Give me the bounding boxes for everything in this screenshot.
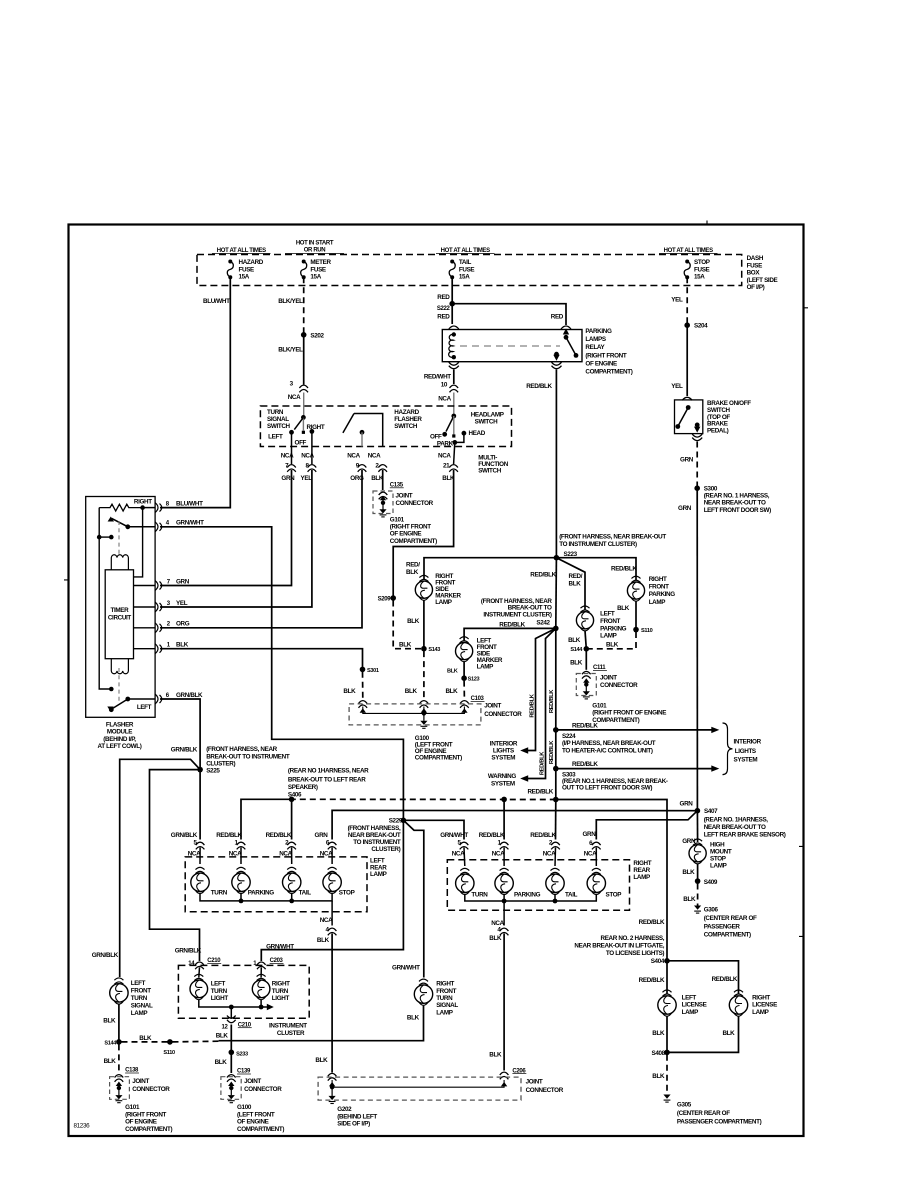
wire BLK S144 to C138 (dashed) bbox=[118, 1044, 120, 1073]
wire RED/BLK S242 to left front side marker lamp bbox=[464, 628, 556, 640]
svg-text:BLK: BLK bbox=[683, 896, 696, 903]
svg-text:GRN: GRN bbox=[315, 832, 329, 839]
svg-text:RIGHT: RIGHT bbox=[272, 980, 290, 987]
svg-text:BLK: BLK bbox=[489, 1052, 502, 1059]
svg-text:SYSTEM: SYSTEM bbox=[491, 781, 515, 788]
svg-text:REAR NO. 2 HARNESS,: REAR NO. 2 HARNESS, bbox=[601, 935, 665, 942]
wire RED/BLK S242 to interior lights system arrow bbox=[523, 628, 556, 750]
wire GRN/WHT flasher pin 4 to S229 bbox=[160, 527, 403, 821]
wire BLK right front turn to S110 bbox=[219, 1006, 424, 1041]
hazard flasher switch bbox=[354, 414, 383, 447]
brake switch arm bbox=[686, 405, 691, 410]
svg-text:NCA: NCA bbox=[584, 850, 597, 857]
fuse STOP FUSE 15A bbox=[685, 260, 689, 264]
svg-text:S144: S144 bbox=[570, 647, 583, 653]
wire BLK S209 to S143 (dashed) bbox=[393, 601, 421, 649]
svg-text:YEL: YEL bbox=[671, 297, 683, 304]
svg-text:LAMP: LAMP bbox=[436, 1009, 453, 1016]
relay switch input cap bbox=[561, 326, 571, 329]
splice S303 with arrow to interior lights bbox=[553, 766, 559, 772]
svg-text:S242: S242 bbox=[536, 620, 550, 627]
svg-text:15A: 15A bbox=[310, 274, 321, 281]
svg-text:(BEHIND LEFT: (BEHIND LEFT bbox=[337, 1113, 377, 1120]
svg-text:21: 21 bbox=[443, 463, 450, 470]
svg-text:SWITCH: SWITCH bbox=[478, 468, 502, 475]
splice S144 (bottom) bbox=[116, 1039, 122, 1045]
headlamp switch contacts bbox=[451, 414, 456, 419]
svg-text:S408: S408 bbox=[651, 1050, 665, 1057]
svg-text:NCA: NCA bbox=[438, 396, 451, 403]
svg-text:CONNECTOR: CONNECTOR bbox=[484, 711, 522, 718]
wire BLK pin21 to S209 bbox=[393, 470, 453, 598]
svg-text:INSTRUMENT CLUSTER): INSTRUMENT CLUSTER) bbox=[483, 611, 551, 618]
svg-text:RED/BLK: RED/BLK bbox=[712, 976, 738, 983]
svg-text:TURN: TURN bbox=[211, 988, 228, 995]
wire RED tail fuse to S222 bbox=[451, 277, 453, 303]
svg-text:BLK: BLK bbox=[407, 1015, 420, 1022]
wire GRN pin7 to flasher pin 7 bbox=[160, 470, 292, 586]
svg-text:JOINT: JOINT bbox=[396, 493, 413, 500]
joint connector C206 bbox=[328, 1073, 337, 1080]
svg-text:LICENSE: LICENSE bbox=[752, 1002, 777, 1009]
svg-text:CLUSTER): CLUSTER) bbox=[371, 846, 400, 853]
svg-text:TURN: TURN bbox=[471, 892, 488, 899]
wire BLK S144 to C111 bbox=[585, 649, 587, 670]
svg-text:15A: 15A bbox=[694, 274, 705, 281]
svg-text:S301: S301 bbox=[367, 668, 379, 674]
wire BLK/YEL meter fuse to S202 (dashed) bbox=[303, 277, 305, 335]
lamp left front parking bbox=[576, 612, 593, 629]
svg-text:INTERIOR: INTERIOR bbox=[490, 741, 518, 748]
svg-text:COMPARTMENT): COMPARTMENT) bbox=[237, 1126, 284, 1133]
wire GRN/BLK S225 branch to instrument cluster pin 14 bbox=[150, 770, 201, 961]
svg-text:OR RUN: OR RUN bbox=[304, 247, 326, 253]
svg-text:FLASHER: FLASHER bbox=[394, 416, 422, 423]
svg-text:NCA: NCA bbox=[320, 850, 333, 857]
svg-text:LEFT REAR BRAKE SENSOR): LEFT REAR BRAKE SENSOR) bbox=[704, 831, 786, 838]
wire pin3 to turn signal switch pivot bbox=[303, 393, 305, 418]
svg-text:FRONT: FRONT bbox=[600, 618, 620, 625]
svg-text:(BEHIND I/P,: (BEHIND I/P, bbox=[103, 736, 136, 743]
wire BLK left rear pin 4 to C206 bbox=[331, 901, 333, 926]
svg-text:LAMP: LAMP bbox=[633, 874, 650, 881]
svg-text:TURN: TURN bbox=[436, 995, 453, 1002]
svg-text:PEDAL): PEDAL) bbox=[707, 428, 729, 435]
svg-text:GRN: GRN bbox=[176, 578, 190, 585]
svg-text:RED/BLK: RED/BLK bbox=[529, 693, 535, 717]
svg-text:RELAY: RELAY bbox=[585, 344, 605, 351]
svg-text:BLK: BLK bbox=[103, 1018, 116, 1025]
svg-text:LEFT: LEFT bbox=[682, 994, 697, 1001]
svg-text:NCA: NCA bbox=[347, 453, 360, 460]
svg-text:RED/BLK: RED/BLK bbox=[527, 789, 553, 796]
flasher mechanical link dashes bbox=[118, 521, 120, 554]
cluster exit pin 12 C210 bbox=[230, 1007, 232, 1018]
svg-text:RED/BLK: RED/BLK bbox=[639, 977, 665, 984]
svg-text:RIGHT: RIGHT bbox=[134, 498, 152, 505]
relay coil input cap bbox=[449, 326, 459, 329]
svg-text:(LEFT SIDE: (LEFT SIDE bbox=[747, 277, 778, 284]
wire BLK S409 to G306 (dashed) bbox=[697, 884, 699, 906]
wire YEL stop fuse to S204 (dashed) bbox=[686, 277, 688, 325]
svg-text:FUSE: FUSE bbox=[239, 266, 255, 273]
svg-text:NCA: NCA bbox=[301, 453, 314, 460]
wire YEL pin8 to flasher pin 3 bbox=[160, 470, 312, 607]
svg-text:RED/BLK: RED/BLK bbox=[572, 722, 598, 729]
svg-text:15A: 15A bbox=[459, 274, 470, 281]
svg-text:GRN/BLK: GRN/BLK bbox=[171, 747, 198, 754]
svg-text:INTERIOR: INTERIOR bbox=[734, 739, 762, 746]
cluster bulb ground bus with arrow bbox=[199, 1000, 269, 1007]
svg-text:S209: S209 bbox=[378, 596, 392, 602]
svg-text:GRN/WHT: GRN/WHT bbox=[392, 965, 420, 972]
svg-text:RED/: RED/ bbox=[569, 573, 583, 580]
svg-text:(LEFT FRONT: (LEFT FRONT bbox=[237, 1111, 275, 1118]
svg-text:14: 14 bbox=[188, 961, 195, 967]
svg-text:(RIGHT FRONT: (RIGHT FRONT bbox=[585, 352, 626, 359]
fuse TAIL FUSE 15A bbox=[450, 260, 454, 264]
svg-text:HEAD: HEAD bbox=[469, 430, 486, 437]
svg-text:OUT TO LEFT FRONT DOOR SW): OUT TO LEFT FRONT DOOR SW) bbox=[562, 784, 652, 791]
svg-text:HIGH: HIGH bbox=[710, 842, 725, 849]
wire RED/BLK S223 to S242 bbox=[555, 558, 558, 629]
svg-text:BLK: BLK bbox=[682, 869, 695, 876]
svg-text:S224: S224 bbox=[562, 733, 576, 740]
wire BLK marker to S143 bbox=[423, 600, 425, 649]
flasher coil bottom bbox=[111, 659, 128, 674]
wire RED/BLK S223 to left front parking lamp bbox=[556, 558, 585, 610]
timer circuit pin stubs bbox=[134, 585, 156, 587]
svg-text:TO INSTRUMENT CLUSTER): TO INSTRUMENT CLUSTER) bbox=[559, 541, 637, 548]
lamp right front side marker bbox=[415, 581, 432, 598]
svg-text:S110: S110 bbox=[163, 1050, 175, 1056]
svg-text:TURN: TURN bbox=[131, 995, 148, 1002]
lamp left front turn signal bbox=[110, 984, 128, 1002]
wire RED/BLK junction to S406 (dashed) bbox=[294, 798, 556, 800]
svg-text:GRN: GRN bbox=[583, 831, 597, 838]
wire YEL S204 to brake switch bbox=[686, 325, 688, 396]
svg-text:G101: G101 bbox=[125, 1104, 140, 1111]
wire BLK left front turn to S144 bbox=[118, 1005, 120, 1042]
svg-text:(REAR NO. 1HARNESS,: (REAR NO. 1HARNESS, bbox=[704, 817, 769, 824]
svg-text:JOINT: JOINT bbox=[600, 675, 617, 682]
svg-text:GRN/WHT: GRN/WHT bbox=[440, 832, 468, 839]
svg-text:JOINT: JOINT bbox=[526, 1079, 543, 1086]
svg-text:BOX: BOX bbox=[747, 270, 761, 277]
svg-text:S222: S222 bbox=[437, 306, 451, 312]
svg-text:YEL: YEL bbox=[671, 383, 683, 390]
svg-text:TAIL: TAIL bbox=[459, 259, 472, 266]
svg-text:HAZARD: HAZARD bbox=[239, 259, 264, 266]
svg-text:AT LEFT COWL): AT LEFT COWL) bbox=[98, 743, 142, 750]
wire BLU/WHT hazard fuse to flasher pin 8 bbox=[160, 277, 230, 507]
multi-function switch box bbox=[260, 406, 511, 447]
svg-text:S404: S404 bbox=[651, 958, 665, 965]
splice S209 bbox=[390, 595, 396, 601]
wire RED/BLK S404 to right license lamp bbox=[667, 961, 739, 994]
lamp right front turn signal bbox=[414, 985, 432, 1003]
svg-text:CIRCUIT: CIRCUIT bbox=[108, 614, 132, 621]
svg-text:BLK: BLK bbox=[405, 688, 418, 695]
svg-text:MOUNT: MOUNT bbox=[710, 849, 732, 856]
svg-text:CONNECTOR: CONNECTOR bbox=[244, 1086, 282, 1093]
splice S123 bbox=[461, 675, 467, 681]
svg-text:S225: S225 bbox=[206, 767, 220, 774]
svg-text:S123: S123 bbox=[468, 677, 480, 683]
lamp high mount stop bbox=[689, 845, 706, 862]
svg-text:SYSTEM: SYSTEM bbox=[491, 755, 515, 762]
svg-text:OF ENGINE: OF ENGINE bbox=[390, 531, 422, 538]
wire GRN S300 to S407 bbox=[696, 488, 698, 811]
svg-text:SIGNAL: SIGNAL bbox=[131, 1003, 153, 1010]
svg-text:LIGHTS: LIGHTS bbox=[735, 748, 756, 755]
svg-text:BLK/YEL: BLK/YEL bbox=[278, 298, 303, 305]
svg-text:S202: S202 bbox=[310, 332, 324, 339]
svg-text:RED: RED bbox=[437, 294, 450, 301]
svg-text:BLK: BLK bbox=[570, 660, 583, 667]
dash fuse box outline bbox=[197, 255, 742, 286]
svg-text:FRONT: FRONT bbox=[131, 988, 151, 995]
svg-text:LEFT: LEFT bbox=[137, 704, 152, 711]
svg-text:BLK: BLK bbox=[406, 569, 419, 576]
wire BLK S408 to G305 (dashed) bbox=[666, 1055, 668, 1095]
wire GRN S407 to left rear stop pin 6 bbox=[332, 810, 697, 839]
svg-text:G101: G101 bbox=[592, 702, 607, 709]
svg-text:RED: RED bbox=[551, 314, 564, 321]
svg-text:YEL: YEL bbox=[301, 475, 313, 482]
svg-text:BREAK-OUT TO INSTRUMENT: BREAK-OUT TO INSTRUMENT bbox=[206, 753, 290, 760]
splice S229 bbox=[401, 818, 407, 824]
svg-text:NEAR BREAK-OUT TO: NEAR BREAK-OUT TO bbox=[704, 824, 766, 831]
svg-text:BLK: BLK bbox=[489, 935, 502, 942]
junction dot rear RED/BLK bbox=[553, 797, 559, 803]
svg-text:BLK: BLK bbox=[104, 1058, 117, 1065]
wire RED S222 to relay coil bbox=[451, 304, 453, 324]
svg-text:OFF: OFF bbox=[430, 433, 442, 440]
svg-text:S406: S406 bbox=[288, 792, 302, 799]
bulb left rear turn bbox=[191, 873, 209, 891]
wire RED/BLK relay to S223 bbox=[555, 370, 557, 558]
flasher resistor bbox=[99, 504, 142, 511]
right rear lamp box bbox=[447, 860, 629, 910]
svg-text:S144: S144 bbox=[104, 1040, 117, 1046]
svg-text:ORG: ORG bbox=[176, 621, 190, 628]
relay coil output chevron bbox=[449, 362, 459, 365]
svg-text:LAMP: LAMP bbox=[752, 1009, 769, 1016]
wire BLK/YEL S202 to multifunction pin 3 bbox=[303, 335, 305, 385]
svg-text:LAMP: LAMP bbox=[131, 1010, 148, 1017]
relay mechanical link (dashed) bbox=[460, 345, 560, 347]
svg-text:RED/BLK: RED/BLK bbox=[479, 832, 505, 839]
turn signal switch contacts bbox=[301, 415, 306, 420]
ground G100 (C103) bbox=[420, 721, 427, 725]
svg-text:HEADLAMP: HEADLAMP bbox=[471, 411, 504, 418]
flasher left rail bbox=[99, 508, 111, 689]
svg-text:TIMER: TIMER bbox=[110, 607, 129, 614]
wire RED/BLK S223 to right front side marker lamp bbox=[424, 558, 556, 579]
splice S110 (front) bbox=[633, 627, 639, 633]
svg-text:15A: 15A bbox=[239, 274, 250, 281]
svg-text:YEL: YEL bbox=[176, 600, 188, 607]
relay parking lamps box bbox=[442, 330, 582, 362]
svg-text:NCA: NCA bbox=[279, 850, 292, 857]
svg-text:FUSE: FUSE bbox=[310, 266, 326, 273]
bulb left rear tail bbox=[283, 873, 301, 891]
svg-text:GRN: GRN bbox=[678, 505, 692, 512]
svg-text:SYSTEM: SYSTEM bbox=[734, 757, 758, 764]
svg-text:(REAR NO 1HARNESS, NEAR: (REAR NO 1HARNESS, NEAR bbox=[288, 768, 369, 775]
svg-text:GRN/WHT: GRN/WHT bbox=[176, 520, 204, 527]
svg-text:TURN: TURN bbox=[267, 409, 284, 416]
svg-text:TURN: TURN bbox=[272, 988, 289, 995]
svg-text:RED/: RED/ bbox=[406, 562, 420, 569]
wire BLK license lamps to S408 bbox=[666, 1017, 668, 1053]
svg-text:LAMP: LAMP bbox=[600, 633, 617, 640]
svg-text:BLU/WHT: BLU/WHT bbox=[203, 298, 230, 305]
svg-text:LAMP: LAMP bbox=[682, 1009, 699, 1016]
svg-text:CONNECTOR: CONNECTOR bbox=[600, 682, 638, 689]
fuse METER FUSE 15A bbox=[302, 260, 306, 264]
svg-text:PASSENGER COMPARTMENT): PASSENGER COMPARTMENT) bbox=[677, 1119, 762, 1126]
relay switch output contact bbox=[554, 352, 559, 357]
svg-text:GRN/BLK: GRN/BLK bbox=[175, 948, 202, 955]
bulb right rear tail bbox=[546, 874, 564, 892]
wire BLK pin2 to joint connector C135 bbox=[382, 470, 384, 490]
svg-text:OF ENGINE: OF ENGINE bbox=[237, 1119, 269, 1126]
splice S408 bbox=[664, 1050, 670, 1056]
svg-text:G100: G100 bbox=[237, 1104, 252, 1111]
svg-text:TAIL: TAIL bbox=[299, 889, 312, 896]
svg-text:NCA: NCA bbox=[543, 850, 556, 857]
svg-text:JOINT: JOINT bbox=[244, 1078, 261, 1085]
svg-text:BLK: BLK bbox=[617, 605, 630, 612]
svg-text:CONNECTOR: CONNECTOR bbox=[526, 1087, 564, 1094]
wire BLK high mount to S409 bbox=[697, 864, 699, 882]
wire BLK S110 to S144 (dashed) bbox=[589, 632, 636, 649]
svg-text:10: 10 bbox=[441, 381, 448, 388]
flasher upper switch arm bbox=[108, 517, 114, 522]
ground G101 (C111) bbox=[583, 691, 590, 695]
splice S301 bbox=[360, 667, 366, 673]
ground G100 (C139) bbox=[228, 1095, 235, 1099]
svg-text:INSTRUMENT: INSTRUMENT bbox=[269, 1023, 307, 1030]
wire pin10 into headlamp switch bbox=[453, 393, 455, 417]
svg-text:G202: G202 bbox=[337, 1106, 352, 1113]
wire RED/BLK junction to license lamps feed bbox=[556, 800, 667, 961]
svg-text:LAMP: LAMP bbox=[435, 599, 452, 606]
svg-text:S409: S409 bbox=[704, 879, 718, 886]
instrument cluster box bbox=[178, 965, 309, 1018]
svg-text:SIGNAL: SIGNAL bbox=[436, 1002, 458, 1009]
bulb right turn light bbox=[252, 980, 270, 998]
wire RED/WHT relay to headlamp switch pin 10 bbox=[453, 370, 455, 385]
lamp right license bbox=[729, 996, 747, 1014]
svg-text:RED/BLK: RED/BLK bbox=[266, 832, 292, 839]
svg-text:TURN: TURN bbox=[211, 889, 228, 896]
svg-text:G305: G305 bbox=[677, 1101, 692, 1108]
bulb left rear parking bbox=[232, 873, 250, 891]
wire BLK S143 to C103 (dashed) bbox=[423, 651, 425, 699]
wire GRN/WHT S229 to right rear turn pin 5 bbox=[403, 820, 464, 839]
svg-text:BLK: BLK bbox=[447, 669, 458, 675]
headlamp switch pin 21 BLK bbox=[454, 442, 455, 464]
svg-text:(RIGHT FRONT: (RIGHT FRONT bbox=[390, 524, 431, 531]
wire BLK right rear pin 4 to C206 bbox=[503, 901, 505, 926]
svg-text:NCA: NCA bbox=[438, 453, 451, 460]
svg-text:LAMP: LAMP bbox=[710, 863, 727, 870]
svg-text:BLK: BLK bbox=[606, 642, 619, 649]
svg-text:BLK: BLK bbox=[176, 642, 189, 649]
bulb right rear parking bbox=[495, 874, 513, 892]
svg-text:GRN: GRN bbox=[680, 801, 694, 808]
svg-text:RED/BLK: RED/BLK bbox=[572, 761, 598, 768]
svg-text:TO HEATER-A/C CONTROL UNIT): TO HEATER-A/C CONTROL UNIT) bbox=[562, 747, 653, 754]
splice S300 bbox=[694, 485, 700, 491]
svg-text:MODULE: MODULE bbox=[107, 729, 132, 736]
svg-text:BLK: BLK bbox=[445, 688, 458, 695]
left rear lamp box bbox=[185, 857, 367, 912]
svg-text:SPEAKER): SPEAKER) bbox=[288, 784, 318, 791]
svg-text:G101: G101 bbox=[390, 517, 405, 524]
wire RED/BLK S406 to left rear parking pin 1 bbox=[241, 799, 292, 839]
relay coil bbox=[452, 332, 456, 336]
lamp left license bbox=[658, 996, 676, 1014]
wire GRN/BLK S225 down to left rear turn pin 5 bbox=[199, 770, 201, 840]
svg-text:TO INSTRUMENT: TO INSTRUMENT bbox=[353, 839, 401, 846]
svg-text:RED/BLK: RED/BLK bbox=[549, 689, 555, 713]
svg-text:LAMP: LAMP bbox=[649, 599, 666, 606]
svg-text:STOP: STOP bbox=[694, 259, 710, 266]
svg-text:NCA: NCA bbox=[320, 917, 333, 924]
svg-text:GRN/BLK: GRN/BLK bbox=[176, 692, 203, 699]
wire RED/BLK S242 to warning system arrow bbox=[523, 628, 556, 778]
bulb left rear stop bbox=[323, 873, 341, 891]
svg-text:G306: G306 bbox=[704, 907, 719, 914]
page border bbox=[69, 225, 804, 1137]
svg-text:HOT IN START: HOT IN START bbox=[296, 240, 334, 246]
right rear lamp ground bus bbox=[465, 895, 597, 902]
bulb right rear stop bbox=[587, 874, 605, 892]
svg-text:HAZARD: HAZARD bbox=[394, 409, 419, 416]
flasher mid contact stub bbox=[97, 535, 102, 540]
svg-text:FRONT: FRONT bbox=[436, 988, 456, 995]
splice S110 (bottom) bbox=[167, 1039, 173, 1045]
svg-text:TO LICENSE LIGHTS): TO LICENSE LIGHTS) bbox=[606, 950, 665, 957]
svg-text:CONNECTOR: CONNECTOR bbox=[396, 500, 434, 507]
svg-text:NCA: NCA bbox=[229, 850, 242, 857]
bulb right rear turn bbox=[456, 874, 474, 892]
svg-text:SWITCH: SWITCH bbox=[394, 423, 418, 430]
wire RED/BLK S303 to rear tail junction bbox=[555, 769, 557, 800]
svg-text:SWITCH: SWITCH bbox=[475, 419, 499, 426]
svg-text:NEAR BREAK-OUT IN LIFTGATE,: NEAR BREAK-OUT IN LIFTGATE, bbox=[574, 943, 664, 950]
splice S242 bbox=[553, 626, 559, 632]
svg-text:LIGHT: LIGHT bbox=[211, 995, 229, 1002]
svg-text:RED/BLK: RED/BLK bbox=[530, 832, 556, 839]
svg-text:LEFT: LEFT bbox=[131, 980, 146, 987]
svg-text:(CENTER REAR OF: (CENTER REAR OF bbox=[677, 1110, 730, 1117]
svg-text:RED/BLK: RED/BLK bbox=[639, 919, 665, 926]
svg-text:LEFT FRONT DOOR SW): LEFT FRONT DOOR SW) bbox=[704, 507, 771, 514]
svg-text:BLK: BLK bbox=[343, 688, 356, 695]
svg-text:COMPARTMENT): COMPARTMENT) bbox=[704, 932, 751, 939]
svg-text:RED: RED bbox=[437, 314, 450, 321]
svg-text:BLK: BLK bbox=[139, 1035, 152, 1042]
svg-text:RED/BLK: RED/BLK bbox=[549, 740, 555, 764]
wire GRN/BLK flasher pin 6 to S225 bbox=[160, 699, 200, 770]
svg-text:OF ENGINE: OF ENGINE bbox=[125, 1119, 157, 1126]
wire GRN/WHT S229 to right front turn signal lamp bbox=[403, 820, 423, 977]
